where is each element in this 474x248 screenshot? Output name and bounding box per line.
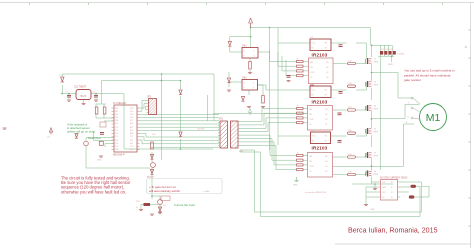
svg-text:PD4: PD4 (130, 111, 133, 113)
svg-text:10R: 10R (348, 172, 352, 174)
svg-text:XT1: XT1 (130, 136, 133, 138)
svg-text:COM: COM (309, 119, 314, 121)
svg-text:PC1: PC1 (115, 130, 118, 132)
svg-text:OK2: OK2 (242, 78, 247, 80)
svg-text:PB5: PB5 (115, 123, 118, 125)
svg-text:PC2: PC2 (115, 133, 118, 135)
svg-text:PB3: PB3 (115, 117, 118, 119)
svg-text:GND: GND (370, 209, 375, 211)
svg-text:IRFB: IRFB (374, 132, 379, 134)
svg-text:10R: 10R (348, 154, 352, 156)
svg-text:1k: 1k (297, 106, 299, 108)
svg-text:IP+: IP+ (391, 182, 394, 184)
svg-text:PC3: PC3 (115, 136, 118, 138)
svg-text:1k: 1k (297, 59, 299, 61)
svg-text:R13 R14 R15: R13 R14 R15 (381, 49, 394, 51)
svg-text:ARF: ARF (130, 132, 133, 135)
svg-text:PB1: PB1 (115, 111, 118, 113)
svg-text:GND: GND (97, 160, 102, 162)
svg-text:IR2103: IR2103 (312, 53, 328, 58)
svg-text:gate resistor: gate resistor (404, 78, 421, 82)
svg-text:AD7: AD7 (130, 126, 133, 129)
svg-text:IP-: IP- (391, 197, 394, 199)
svg-text:10R: 10R (348, 83, 352, 85)
svg-text:speed input: speed input (88, 137, 101, 140)
svg-text:PD2: PD2 (115, 146, 118, 148)
svg-text:10R: 10R (348, 61, 352, 63)
svg-text:IRFB: IRFB (374, 174, 379, 176)
svg-text:will automaticaly switch: will automaticaly switch (149, 189, 180, 193)
svg-text:GND: GND (388, 64, 393, 66)
svg-text:RST: RST (130, 143, 133, 145)
svg-text:ACS758 CURRENT SENS: ACS758 CURRENT SENS (380, 177, 408, 180)
svg-text:78L05: 78L05 (80, 95, 87, 98)
svg-text:PD6: PD6 (130, 117, 133, 119)
svg-text:PB0: PB0 (115, 108, 118, 110)
svg-text:OK1: OK1 (242, 46, 247, 48)
svg-text:IP-: IP- (391, 187, 394, 189)
svg-text:IRFB: IRFB (374, 62, 379, 64)
svg-text:MEGA8-P: MEGA8-P (113, 153, 125, 157)
svg-text:1k: 1k (297, 153, 299, 155)
svg-text:XT2: XT2 (130, 140, 133, 142)
svg-text:Berca Iulian, Romania, 2015: Berca Iulian, Romania, 2015 (348, 227, 438, 235)
svg-text:10R: 10R (348, 130, 352, 132)
svg-text:(peltier will go on duty): (peltier will go on duty) (67, 130, 95, 134)
svg-text:all mosfets IRFB7430: all mosfets IRFB7430 (305, 191, 327, 194)
svg-text:IC2 7805T: IC2 7805T (74, 85, 87, 89)
svg-text:A: A (465, 44, 468, 49)
svg-text:IRFB: IRFB (374, 109, 379, 111)
svg-text:1k: 1k (136, 207, 138, 209)
svg-text:COM: COM (309, 166, 314, 168)
svg-text:IRFB: IRFB (374, 156, 379, 158)
svg-text:PD3: PD3 (130, 108, 133, 110)
svg-text:GND: GND (382, 187, 387, 189)
svg-text:PC0: PC0 (115, 127, 118, 129)
svg-text:Current fan input: Current fan input (174, 203, 195, 207)
svg-text:IP+: IP+ (391, 192, 394, 194)
svg-text:0.003R: 0.003R (397, 54, 404, 56)
svg-text:PB4: PB4 (115, 120, 118, 122)
svg-text:1N4148: 1N4148 (197, 129, 205, 131)
svg-text:otherwise you will have fault: otherwise you will have fault led on. (61, 189, 126, 194)
svg-text:IRFB: IRFB (374, 85, 379, 87)
svg-text:IC1 MEGA8: IC1 MEGA8 (113, 102, 126, 105)
svg-text:PD5: PD5 (130, 114, 133, 116)
svg-text:= c'ble: = c'ble (203, 191, 210, 193)
svg-text:COM: COM (310, 72, 315, 74)
svg-text:AD6: AD6 (130, 122, 133, 125)
svg-text:M1: M1 (426, 112, 441, 124)
svg-text:10R: 10R (348, 107, 352, 109)
svg-text:IR2103: IR2103 (312, 146, 328, 151)
svg-text:GND: GND (293, 185, 298, 187)
svg-text:PD1: PD1 (115, 143, 118, 145)
svg-text:parallel. All should have indi: parallel. All should have individual (404, 73, 451, 77)
svg-text:You can add up to 5 small mosf: You can add up to 5 small mosfets in (404, 69, 455, 73)
svg-text:IR2103: IR2103 (312, 100, 328, 105)
svg-text:PD7: PD7 (130, 120, 133, 122)
svg-text:PD0: PD0 (115, 140, 118, 142)
svg-text:PB2: PB2 (115, 114, 118, 116)
